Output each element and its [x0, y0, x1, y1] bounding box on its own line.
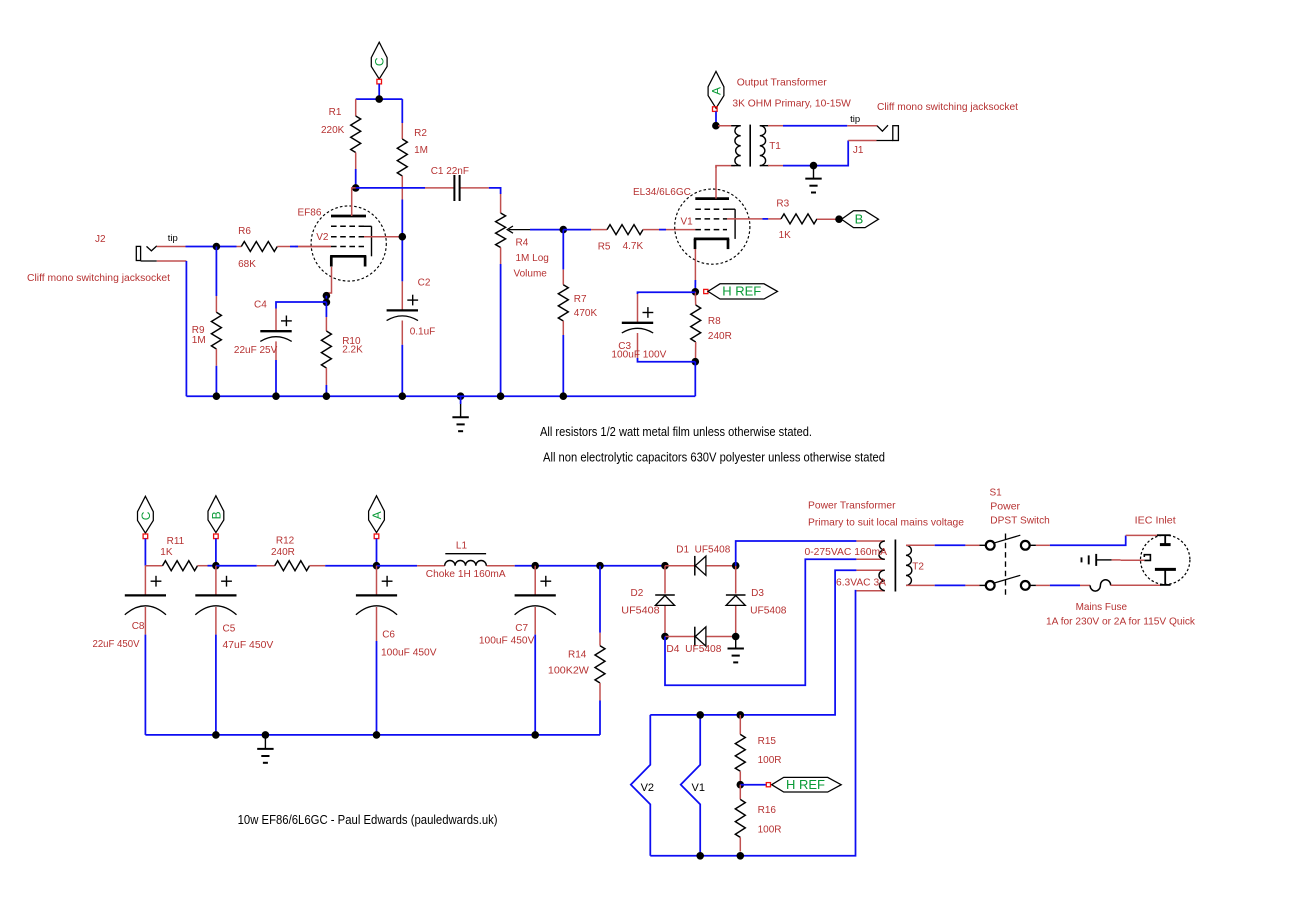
svg-text:D3: D3: [751, 588, 764, 599]
wire: [715, 111, 717, 125]
junction: [323, 392, 331, 400]
wire: [1111, 584, 1161, 586]
resistor R8: [691, 292, 732, 360]
wire: [325, 296, 327, 303]
wire: [783, 141, 848, 166]
inductor L1: [417, 541, 515, 581]
net flag A: [708, 71, 724, 111]
svg-text:22uF 450V: 22uF 450V: [93, 639, 140, 650]
junction: [661, 633, 669, 641]
wire: [935, 544, 966, 546]
wire: [377, 565, 418, 567]
diode D3: [726, 566, 787, 637]
diode D1: [665, 545, 736, 576]
ground: [452, 392, 468, 431]
wire: [666, 229, 695, 231]
capacitor C4: [234, 300, 327, 361]
resistor R12: [257, 536, 325, 571]
svg-text:100uF 100V: 100uF 100V: [611, 350, 666, 361]
wire: [650, 591, 856, 856]
svg-text:C: C: [373, 57, 387, 66]
svg-text:C: C: [139, 511, 153, 520]
svg-text:1M: 1M: [192, 335, 206, 346]
wire: [694, 249, 696, 280]
svg-text:R2: R2: [414, 128, 427, 139]
svg-text:100uF 450V: 100uF 450V: [381, 648, 437, 659]
svg-text:10w EF86/6L6GC - Paul Edwards: 10w EF86/6L6GC - Paul Edwards (pauledwar…: [238, 812, 498, 827]
junction: [352, 184, 360, 192]
svg-text:EL34/6L6GC: EL34/6L6GC: [633, 187, 691, 198]
heater V1: [681, 715, 705, 856]
svg-text:J1: J1: [853, 145, 864, 156]
junction: [373, 731, 381, 739]
svg-text:T2: T2: [912, 562, 924, 573]
svg-text:Mains Fuse: Mains Fuse: [1076, 601, 1128, 613]
junction: [596, 562, 604, 570]
wire: [216, 565, 257, 567]
junction: [712, 122, 720, 130]
tube V1 EL34/6L6GC: [633, 187, 750, 264]
svg-text:T1: T1: [769, 141, 781, 152]
svg-text:0-275VAC 160mA: 0-275VAC 160mA: [805, 546, 888, 558]
svg-text:R5: R5: [598, 242, 611, 253]
wire: [965, 544, 979, 546]
wire: [355, 169, 357, 188]
wire: [326, 267, 331, 296]
svg-text:B: B: [855, 212, 864, 227]
svg-text:IEC Inlet: IEC Inlet: [1135, 515, 1176, 527]
svg-text:1A for 230V or 2A for 115V Qui: 1A for 230V or 2A for 115V Quick: [1046, 616, 1196, 628]
resistor R7: [558, 269, 597, 335]
svg-text:R15: R15: [758, 736, 777, 747]
svg-text:D2: D2: [631, 588, 644, 599]
svg-text:V2: V2: [641, 782, 654, 794]
junction: [732, 633, 740, 641]
svg-text:All non electrolytic capacitor: All non electrolytic capacitors 630V pol…: [543, 450, 885, 465]
svg-text:Choke 1H 160mA: Choke 1H 160mA: [426, 569, 506, 580]
svg-text:C2: C2: [418, 278, 431, 289]
junction: [373, 562, 381, 570]
wire: [157, 246, 186, 248]
svg-text:1K: 1K: [779, 230, 792, 241]
net flag B: [842, 211, 879, 228]
wire: [638, 358, 696, 362]
diode D2: [621, 566, 675, 637]
junction: [560, 392, 568, 400]
svg-text:R12: R12: [276, 536, 295, 547]
wire: [401, 200, 403, 282]
capacitor C8: [93, 566, 167, 650]
note: [540, 424, 812, 439]
junction: [835, 215, 843, 223]
tube V2 EF86: [298, 206, 387, 281]
wire: [325, 302, 327, 317]
net flag A: [369, 496, 385, 539]
wire: [715, 166, 717, 199]
wire: [298, 246, 331, 248]
wire: [847, 125, 877, 127]
wire: [215, 635, 217, 735]
wire: [157, 260, 187, 262]
net flag C (B+ supply): [371, 42, 387, 84]
IEC inlet: [1121, 515, 1190, 585]
wire: [1036, 584, 1050, 586]
svg-text:C1: C1: [431, 166, 444, 177]
svg-text:A: A: [709, 87, 723, 95]
junction: [560, 226, 568, 234]
wire: [325, 565, 376, 567]
svg-text:J2: J2: [95, 234, 106, 245]
svg-text:R4: R4: [516, 238, 529, 249]
wire: [290, 246, 298, 248]
svg-text:R16: R16: [758, 805, 777, 816]
wire: [562, 335, 564, 396]
wire: [694, 280, 696, 292]
capacitor C5: [195, 566, 273, 651]
junction: [531, 731, 539, 739]
capacitor C3: [611, 292, 695, 360]
wire: [215, 247, 217, 297]
wire: [356, 98, 403, 100]
svg-text:6.3VAC 3A: 6.3VAC 3A: [836, 576, 886, 588]
junction: [213, 243, 221, 251]
svg-text:A: A: [370, 511, 384, 519]
wire: [534, 635, 536, 735]
svg-text:3K OHM Primary, 10-15W: 3K OHM Primary, 10-15W: [732, 98, 851, 110]
wire: [1080, 584, 1090, 586]
note: [543, 450, 885, 465]
svg-text:All resistors 1/2 watt metal f: All resistors 1/2 watt metal film unless…: [540, 424, 812, 439]
junction: [696, 852, 704, 860]
svg-text:B: B: [209, 511, 223, 519]
svg-text:22uF 25V: 22uF 25V: [234, 345, 278, 356]
wire: [718, 125, 735, 127]
wire: [145, 734, 600, 736]
svg-text:22nF: 22nF: [446, 166, 469, 177]
svg-text:UF5408: UF5408: [750, 606, 787, 617]
junction: [737, 711, 745, 719]
svg-text:Power Transformer: Power Transformer: [808, 500, 896, 512]
wire: [1050, 584, 1080, 586]
wire: [376, 539, 378, 566]
svg-text:tip: tip: [850, 114, 860, 125]
svg-text:100R: 100R: [758, 755, 782, 766]
svg-text:100uF 450V: 100uF 450V: [479, 636, 535, 647]
wire: [515, 565, 665, 567]
wire: [768, 165, 783, 167]
resistor R9: [192, 296, 222, 366]
svg-text:100R: 100R: [758, 825, 782, 836]
wire: [848, 140, 876, 142]
wire: [965, 584, 979, 586]
svg-text:tip: tip: [168, 233, 178, 244]
resistor R5: [563, 225, 659, 253]
svg-text:C6: C6: [382, 630, 395, 641]
resistor R3: [768, 199, 837, 242]
svg-text:Volume: Volume: [514, 269, 548, 280]
junction: [272, 392, 280, 400]
svg-text:D1 UF5408: D1 UF5408: [676, 545, 730, 556]
svg-text:220K: 220K: [321, 125, 345, 136]
svg-text:Primary to suit local mains vo: Primary to suit local mains voltage: [808, 517, 964, 529]
junction: [737, 852, 745, 860]
resistor R1: [321, 99, 361, 169]
wire: [665, 559, 856, 685]
capacitor C7: [479, 566, 556, 647]
svg-text:C7: C7: [515, 623, 528, 634]
junction: [399, 233, 407, 241]
junction: [810, 162, 818, 170]
net flag H REF: [766, 777, 841, 792]
fuse F1: [1046, 580, 1196, 628]
junction: [737, 781, 745, 789]
svg-text:H REF: H REF: [722, 284, 761, 299]
capacitor C1: [425, 166, 489, 201]
wire: [935, 584, 966, 586]
svg-text:Output Transformer: Output Transformer: [737, 77, 827, 89]
net flag B: [208, 496, 224, 539]
svg-text:H REF: H REF: [786, 777, 825, 792]
svg-text:Power: Power: [990, 501, 1020, 513]
wire: [144, 539, 146, 566]
junction: [323, 299, 331, 307]
wire: [215, 539, 217, 566]
heater V2: [631, 715, 654, 856]
wire: [599, 566, 601, 633]
net flag H REF: [704, 284, 778, 299]
wire: [401, 99, 403, 123]
resistor R14: [548, 633, 605, 701]
svg-text:S1: S1: [990, 488, 1003, 499]
wire: [727, 218, 762, 220]
svg-text:R11: R11: [167, 536, 185, 547]
wire: [356, 187, 425, 189]
svg-text:240R: 240R: [708, 331, 732, 342]
wire: [215, 366, 217, 396]
wire: [489, 188, 501, 194]
junction: [692, 288, 700, 296]
svg-text:68K: 68K: [238, 259, 256, 270]
ground: [805, 166, 821, 193]
svg-text:240R: 240R: [271, 547, 295, 558]
potentiometer R4: [496, 194, 549, 280]
svg-text:100K2W: 100K2W: [548, 666, 590, 677]
junction: [497, 392, 505, 400]
resistor R16: [735, 785, 781, 852]
wire: [716, 166, 735, 168]
capacitor C6: [356, 566, 437, 659]
wire: [562, 230, 564, 270]
svg-text:47uF 450V: 47uF 450V: [223, 640, 274, 651]
wire: [352, 188, 356, 216]
svg-text:C5: C5: [223, 624, 236, 635]
svg-text:UF5408: UF5408: [621, 605, 660, 616]
svg-text:R8: R8: [708, 316, 721, 327]
wire: [376, 641, 378, 735]
svg-text:C8: C8: [132, 621, 145, 632]
svg-text:R6: R6: [238, 226, 251, 237]
wire: [401, 345, 403, 396]
wire: [694, 362, 696, 397]
junction: [212, 562, 220, 570]
svg-text:V2: V2: [316, 232, 329, 243]
svg-text:EF86: EF86: [298, 208, 322, 219]
svg-text:C4: C4: [254, 300, 267, 311]
junction: [212, 731, 220, 739]
junction: [375, 95, 383, 103]
junction: [262, 731, 270, 739]
svg-text:Cliff mono switching jacksocke: Cliff mono switching jacksocket: [27, 273, 170, 284]
chassis earth: [1082, 554, 1121, 566]
resistor R11: [145, 536, 207, 571]
wire: [275, 360, 277, 396]
wire: [1126, 534, 1158, 536]
wire: [1036, 544, 1050, 546]
wire: [186, 246, 237, 248]
resistor R2: [397, 123, 428, 200]
wire: [295, 246, 331, 248]
svg-text:Cliff mono switching jacksocke: Cliff mono switching jacksocket: [877, 102, 1018, 113]
resistor R15: [735, 715, 781, 785]
svg-text:0.1uF: 0.1uF: [410, 327, 436, 338]
transformer T1: [731, 77, 851, 167]
svg-text:1M Log: 1M Log: [516, 253, 549, 264]
capacitor C2: [387, 278, 436, 345]
net flag C: [138, 496, 154, 538]
junction: [732, 562, 740, 570]
resistor R6: [237, 226, 291, 270]
wire: [768, 125, 783, 127]
wire: [783, 125, 847, 127]
svg-text:1M: 1M: [414, 145, 428, 156]
wire: [185, 261, 187, 396]
svg-text:L1: L1: [456, 541, 468, 552]
wire: [186, 395, 695, 397]
svg-text:R1: R1: [329, 107, 342, 118]
wire: [659, 229, 666, 231]
junction: [692, 358, 700, 366]
wire: [762, 218, 768, 220]
wire: [650, 570, 856, 715]
note: [238, 812, 498, 827]
junction: [399, 392, 407, 400]
jack J1: [850, 102, 1018, 156]
resistor R10: [321, 317, 363, 385]
wire: [736, 541, 857, 566]
ground: [728, 637, 744, 663]
wire: [325, 385, 327, 396]
diode D4: [665, 627, 736, 655]
ground: [257, 735, 273, 763]
wire: [364, 236, 399, 238]
junction: [661, 562, 669, 570]
junction: [696, 711, 704, 719]
svg-text:DPST Switch: DPST Switch: [990, 515, 1050, 527]
svg-text:4.7K: 4.7K: [623, 241, 644, 252]
wire: [208, 565, 216, 567]
junction: [323, 292, 331, 300]
svg-text:470K: 470K: [574, 308, 598, 319]
wire: [378, 84, 380, 99]
wire: [599, 701, 601, 735]
transformer T2: [805, 500, 965, 592]
wire: [144, 635, 146, 735]
wire: [530, 229, 563, 231]
svg-text:1K: 1K: [160, 547, 173, 558]
junction: [213, 392, 221, 400]
svg-text:R14: R14: [568, 650, 587, 661]
svg-text:V1: V1: [681, 217, 694, 228]
switch S1: [980, 488, 1050, 596]
wire: [500, 264, 502, 396]
svg-text:V1: V1: [692, 782, 705, 794]
wire: [740, 784, 766, 786]
jack J2: [27, 233, 178, 284]
svg-text:R3: R3: [776, 199, 789, 210]
svg-text:2.2K: 2.2K: [342, 345, 363, 356]
junction: [531, 562, 539, 570]
svg-text:R7: R7: [574, 294, 587, 305]
svg-text:D4 UF5408: D4 UF5408: [666, 644, 721, 655]
wire: [1050, 536, 1126, 546]
